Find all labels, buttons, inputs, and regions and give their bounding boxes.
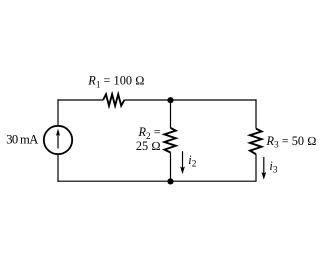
- wire left lower (source to bottom-left corner): [57, 154, 59, 181]
- wire right upper (corner to R3): [255, 99, 257, 128]
- wire right lower (R3 to bottom-right corner): [255, 154, 257, 181]
- current source I1 (30 mA): [44, 126, 72, 154]
- wire left upper (source to top-left corner): [57, 99, 59, 125]
- wire middle upper (node A to R2): [170, 100, 172, 128]
- current arrow i3: [261, 157, 266, 180]
- wire top left segment (corner to R1): [57, 99, 103, 101]
- svg-text:2: 2: [192, 160, 197, 170]
- node A junction dot: [167, 97, 173, 103]
- svg-text:25 Ω: 25 Ω: [136, 139, 161, 153]
- svg-text:30 mA: 30 mA: [6, 133, 38, 147]
- node B junction dot: [167, 178, 173, 184]
- wire top right segment (node A to top-right corner): [171, 99, 257, 101]
- resistor R1: [103, 94, 124, 105]
- wire bottom (full span): [57, 180, 256, 182]
- current arrow i2: [180, 151, 185, 174]
- resistor R2: [164, 128, 175, 153]
- wire middle lower (R2 to node B): [170, 153, 172, 182]
- svg-text:3: 3: [273, 165, 278, 175]
- resistor R3: [250, 129, 262, 155]
- wire top middle segment (R1 to node A): [124, 99, 170, 101]
